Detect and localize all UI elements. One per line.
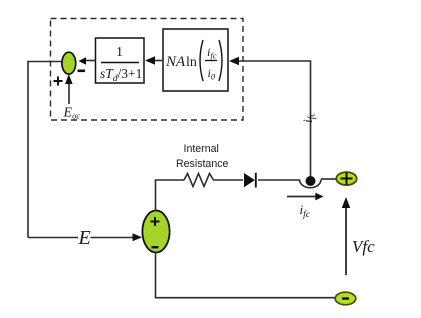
wire: source E1 bottom to negative terminal — [156, 252, 336, 298]
wire: arrow block B2 to block B1 — [145, 56, 163, 65]
svg-text:Vfc: Vfc — [352, 237, 375, 256]
plus sign at summing junction — [54, 77, 63, 86]
svg-text:Resistance: Resistance — [176, 158, 229, 170]
summing junction U1 — [62, 52, 76, 74]
Vfc voltage arrow — [342, 197, 351, 275]
node ifc label (rotated) — [300, 112, 318, 123]
wire: source E1 top up to resistor — [156, 180, 185, 211]
controlled voltage source E1 — [142, 211, 169, 253]
minus sign at summing junction — [78, 70, 86, 73]
negative output terminal — [335, 292, 356, 305]
svg-text:Internal: Internal — [184, 143, 219, 155]
wire: hop arc under node N1 — [300, 180, 322, 188]
wire: diode to node N1 — [258, 179, 300, 181]
svg-text:E: E — [78, 227, 91, 249]
wire: E net into controlled source — [28, 233, 142, 241]
plus sign of source E1 — [151, 217, 160, 226]
positive output terminal — [336, 172, 356, 185]
diode D1 — [244, 173, 256, 188]
wire: ifc feedback from node N1 up and left into block B2 — [229, 57, 311, 177]
resistor R1 internal resistance — [184, 174, 217, 187]
wire: resistor to diode — [217, 179, 243, 181]
wire: arrow block B1 to summing junction — [79, 57, 96, 64]
svg-text:ln: ln — [186, 55, 197, 70]
block B2: NAln(ifc/i0) — [163, 29, 228, 91]
block B1: transfer function 1/(sTd/3+1) — [96, 38, 145, 84]
svg-text:1: 1 — [116, 45, 123, 60]
wire: summing junction output, left then down — [28, 62, 62, 238]
minus sign of source E1 — [152, 246, 159, 248]
wire: Eoc arrow up into summing junction — [65, 74, 73, 104]
wire: node N1 to positive terminal — [321, 178, 337, 180]
dashed box: activation-loss feedback subsystem — [51, 19, 244, 121]
svg-text:NA: NA — [165, 54, 186, 70]
node N1 junction dot — [306, 176, 316, 186]
label Internal Resistance — [176, 143, 229, 170]
ifc current arrow — [287, 193, 324, 201]
